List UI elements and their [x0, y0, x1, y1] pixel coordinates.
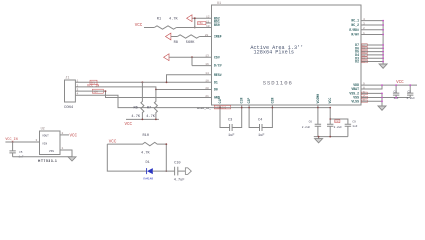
diode D1 1N4148 [143, 161, 153, 181]
svg-text:C6: C6 [309, 121, 313, 124]
junction [165, 170, 167, 172]
svg-text:VBAT: VBAT [351, 87, 359, 91]
svg-text:J1: J1 [65, 77, 69, 81]
resistor R7 [146, 90, 157, 120]
U1 right pin numbers [363, 18, 365, 102]
svg-text:SSD1106: SSD1106 [263, 80, 293, 87]
svg-text:1uF: 1uF [258, 134, 264, 138]
svg-text:VCC_IN: VCC_IN [5, 138, 17, 142]
svg-text:4.7K: 4.7K [146, 115, 155, 119]
svg-text:R7: R7 [147, 106, 151, 110]
net label box on D1 row [90, 80, 97, 85]
power VCC arrow IREF [166, 33, 171, 40]
connector J1 [64, 77, 79, 110]
svg-text:R1: R1 [157, 17, 161, 21]
svg-text:D1: D1 [214, 80, 218, 84]
wire BS2 row [192, 17, 212, 19]
wire D0 row from J1 pin2 [75, 87, 211, 90]
svg-text:IREF: IREF [214, 35, 222, 39]
svg-text:2.2uF: 2.2uF [407, 97, 416, 100]
offpage connector arrow [185, 168, 191, 175]
junction [194, 27, 196, 29]
U1 left pin names [214, 16, 222, 99]
svg-text:VCC: VCC [70, 134, 78, 138]
junction [142, 119, 144, 121]
wire vertical join rows1-3 [194, 18, 196, 27]
junction [142, 81, 144, 83]
wire VDD row to VCC [361, 84, 417, 86]
svg-text:NC_1: NC_1 [351, 19, 359, 23]
junction [165, 143, 167, 145]
svg-text:C3: C3 [228, 119, 232, 123]
svg-text:C9: C9 [352, 120, 356, 123]
svg-text:RES#: RES# [214, 73, 222, 77]
svg-text:4: 4 [77, 93, 79, 96]
svg-text:4.7K: 4.7K [131, 115, 140, 119]
wire arrow to R8 [171, 36, 177, 38]
capacitor C3 loop [220, 105, 242, 138]
wire D3 row [361, 57, 383, 59]
junction [166, 81, 168, 83]
pin number boxes VSS group [362, 92, 368, 103]
junction [155, 119, 157, 121]
svg-text:C10: C10 [174, 162, 180, 166]
junction dots bottom [219, 107, 331, 138]
wire NC_1 row [361, 20, 383, 22]
pin number boxes D7-D2 [362, 44, 368, 63]
junction [105, 90, 107, 92]
wire VLSS row [361, 100, 382, 102]
capacitor C1 [393, 85, 399, 100]
svg-text:VCC: VCC [125, 123, 133, 127]
svg-text:U1: U1 [217, 2, 221, 6]
svg-text:2.2uF: 2.2uF [302, 126, 311, 129]
svg-text:VCOMH: VCOMH [316, 94, 320, 104]
svg-text:HT7533-1: HT7533-1 [38, 159, 57, 163]
svg-text:C2N: C2N [270, 98, 274, 104]
wire gnd stub [318, 137, 320, 139]
svg-text:C8: C8 [335, 120, 339, 123]
ground bottom rail [315, 139, 323, 143]
wire NC_2 row [361, 24, 383, 26]
wire E/RD# row [361, 29, 383, 31]
svg-text:VCC: VCC [328, 98, 332, 104]
net label box SSD1306 on wire [214, 105, 230, 109]
svg-text:IN4148: IN4148 [143, 176, 153, 180]
wire bottom gnd rail [314, 136, 348, 138]
svg-text:4.7K: 4.7K [141, 152, 150, 156]
svg-text:VCC: VCC [135, 24, 143, 28]
wire C5 bottom to gnd [13, 156, 72, 158]
capacitor C8 [327, 108, 342, 137]
wire R10 right drop [165, 144, 167, 171]
wire BS1 stub [206, 22, 212, 24]
svg-text:1uF: 1uF [352, 125, 357, 128]
wire diode to C10 [153, 170, 175, 172]
svg-text:CS1: CS1 [198, 22, 203, 25]
resistor R10 [107, 134, 166, 155]
wire CS# row [169, 56, 211, 58]
svg-text:R8: R8 [174, 41, 178, 45]
svg-text:R6: R6 [134, 106, 138, 110]
svg-text:1: 1 [77, 80, 79, 83]
capacitor C10 [174, 162, 185, 183]
svg-text:1uF: 1uF [228, 134, 234, 138]
svg-text:D/C#: D/C# [214, 64, 222, 68]
wire long GND from J1 pin4 [75, 95, 330, 107]
junction [155, 89, 157, 91]
wire vertical CS to DC [191, 57, 193, 65]
svg-text:3: 3 [77, 89, 79, 92]
regulator U2 [36, 127, 64, 163]
wire R8 to chip IREF [200, 36, 212, 38]
ground right bus [379, 64, 387, 68]
svg-text:4.7uF: 4.7uF [174, 178, 185, 182]
wire VCC to R1 [144, 27, 154, 29]
svg-text:128x64 Pixels: 128x64 Pixels [254, 50, 294, 56]
wire RES# row [167, 75, 212, 83]
svg-text:C1: C1 [394, 90, 398, 93]
svg-text:D1: D1 [146, 161, 150, 165]
wire right NC bus [382, 21, 384, 64]
svg-text:C1P: C1P [218, 98, 222, 104]
svg-text:D2: D2 [355, 60, 359, 64]
svg-text:E/RD#: E/RD# [349, 28, 359, 32]
junction [191, 56, 193, 58]
wire U2 VSS to gnd [60, 150, 72, 157]
resistor R1 [154, 17, 178, 29]
svg-text:D0: D0 [214, 88, 218, 92]
svg-text:VCC: VCC [396, 81, 404, 85]
capacitor C6 [302, 105, 321, 137]
wire D7 row [361, 44, 383, 46]
net label box BS1 row [198, 22, 206, 26]
junction [194, 17, 196, 19]
wire gnd riser [381, 93, 383, 106]
ground U2 [68, 157, 76, 161]
power VCC arrow CS# [164, 54, 169, 61]
junction [12, 141, 14, 143]
svg-text:2.2uF: 2.2uF [334, 126, 343, 129]
svg-text:VLSS: VLSS [351, 99, 359, 103]
svg-text:VSS: VSS [49, 150, 54, 153]
wire C10 to offpage arrow [178, 170, 186, 172]
svg-text:VOUT: VOUT [42, 135, 49, 138]
svg-text:CS#: CS# [214, 55, 220, 59]
resistor R6 [131, 82, 144, 119]
U1 left pin numbers [205, 16, 210, 98]
U1 bottom pin names (vertical) [218, 94, 332, 104]
wire VCC rail under R6 R7 [126, 118, 159, 120]
svg-text:BS0: BS0 [214, 23, 220, 27]
net label box on GND row [92, 89, 103, 93]
capacitor C2 [407, 85, 416, 100]
svg-text:C5: C5 [19, 151, 23, 154]
svg-text:R/W#: R/W# [351, 33, 359, 37]
wire D/C# row [192, 65, 212, 67]
wire R/W# row [361, 34, 383, 36]
svg-text:4.7K: 4.7K [169, 17, 178, 21]
wire VCC left drop to diode row [107, 144, 146, 171]
capacitor C4 loop [249, 105, 272, 138]
wire VSS_2 row [361, 92, 382, 94]
power VCC arrow left top [187, 15, 192, 22]
junction dots VDD area [381, 84, 411, 102]
ground VSS group [378, 106, 386, 110]
svg-text:VIN: VIN [42, 142, 47, 145]
wire D5 row [361, 51, 383, 53]
wire VCC_IN to VIN [5, 141, 39, 143]
svg-text:U2: U2 [41, 127, 45, 131]
wire D1 row from J1 [75, 81, 211, 83]
svg-text:R10: R10 [143, 134, 149, 138]
resistor R8 [174, 35, 200, 45]
wire VSS row [361, 97, 410, 99]
wire VBAT row [361, 85, 382, 89]
capacitor C5 [9, 142, 23, 159]
wire GND row from J1 pin3 [75, 91, 211, 97]
U1 right pin names [349, 19, 359, 104]
wire D4 row [361, 54, 383, 56]
svg-text:C2: C2 [408, 90, 412, 93]
wire U2 VOUT to VCC [60, 134, 69, 136]
svg-text:CON4: CON4 [64, 106, 74, 110]
svg-text:NC_2: NC_2 [351, 23, 359, 27]
junction dots right bus [382, 20, 384, 63]
capacitor C9 loop [330, 119, 358, 137]
wire D2 row [361, 61, 383, 63]
svg-text:2: 2 [77, 84, 79, 87]
svg-text:C1N: C1N [240, 98, 244, 104]
svg-text:C4: C4 [258, 119, 262, 123]
wire D6 row [361, 47, 383, 49]
svg-text:C2P: C2P [247, 98, 251, 104]
svg-text:560K: 560K [186, 41, 195, 45]
op-amp U1 display driver chip body [212, 2, 362, 105]
wire R1 to chip [176, 27, 211, 29]
